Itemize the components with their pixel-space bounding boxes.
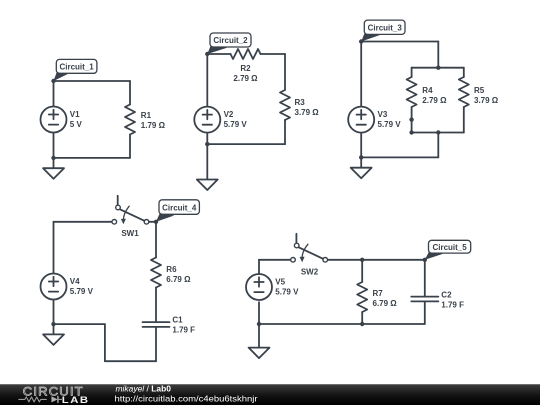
- svg-text:V4: V4: [70, 277, 80, 286]
- wire R4 top stub: [411, 68, 413, 77]
- svg-text:V1: V1: [70, 110, 80, 119]
- svg-text:http://circuitlab.com/c4ebu6ts: http://circuitlab.com/c4ebu6tskhnjr: [115, 394, 258, 404]
- wire switch-left C4: [54, 221, 112, 223]
- svg-text:C2: C2: [441, 290, 452, 299]
- wire bottom C2: [207, 143, 285, 145]
- node R4 bottom junction: [409, 130, 413, 134]
- resistor R5: [459, 77, 499, 107]
- svg-text:C1: C1: [172, 315, 183, 324]
- wire top-right C2: [261, 53, 286, 55]
- wire V5 top stub: [258, 260, 260, 274]
- node A1 top-left junction: [51, 79, 55, 83]
- wire left-bottom C3: [360, 133, 362, 168]
- wire right-bottom C1: [129, 135, 131, 158]
- wire R3 bottom stub: [284, 120, 286, 144]
- svg-text:Circuit_4: Circuit_4: [162, 203, 197, 212]
- wire C1 bottom stub: [155, 327, 157, 361]
- svg-text:V3: V3: [378, 110, 388, 119]
- wire bottom C5: [259, 323, 425, 325]
- svg-text:Circuit_2: Circuit_2: [213, 36, 248, 45]
- resistor R4: [407, 77, 447, 107]
- wire R5 bottom stub: [463, 107, 465, 133]
- wire left-bottom C1: [53, 133, 55, 169]
- svg-text:V5: V5: [275, 277, 285, 286]
- wire center drop C3: [437, 133, 439, 158]
- svg-text:Circuit_5: Circuit_5: [432, 243, 467, 252]
- svg-text:SW1: SW1: [121, 229, 139, 238]
- resistor R7: [357, 282, 397, 312]
- wire below V4: [53, 299, 55, 334]
- wire switch-to-R7 C5: [327, 259, 424, 261]
- wire left-top C2: [206, 54, 208, 107]
- node C2 top junction: [423, 258, 427, 262]
- wire left-bottom C5: [258, 302, 260, 347]
- svg-text:V2: V2: [224, 110, 234, 119]
- wire C2 top stub: [424, 260, 426, 297]
- svg-text:Circuit_3: Circuit_3: [368, 24, 403, 33]
- wire right drop C3: [437, 42, 439, 68]
- label Circuit_4: [156, 200, 199, 222]
- svg-text:3.79 Ω: 3.79 Ω: [295, 108, 320, 117]
- wire top-left C2: [207, 53, 230, 55]
- wire bottom C3: [361, 156, 438, 158]
- svg-text:2.79 Ω: 2.79 Ω: [422, 96, 447, 105]
- wire R6-C1: [155, 288, 157, 323]
- wire left-top C3: [360, 42, 362, 107]
- svg-text:6.79 Ω: 6.79 Ω: [373, 299, 398, 308]
- label Circuit_2: [207, 33, 251, 54]
- svg-text:5.79 V: 5.79 V: [378, 120, 402, 129]
- svg-text:R2: R2: [240, 64, 251, 73]
- svg-text:3.79 Ω: 3.79 Ω: [474, 96, 499, 105]
- node bottom bus junction: [436, 130, 440, 134]
- voltage source V3: [348, 107, 401, 133]
- svg-text:2.79 Ω: 2.79 Ω: [233, 74, 258, 83]
- svg-text:1.79 Ω: 1.79 Ω: [141, 121, 166, 130]
- wire R3 top stub: [284, 54, 286, 90]
- wire R4 bottom stub: [411, 107, 413, 133]
- resistor R6: [151, 258, 191, 288]
- node top bus junction: [436, 66, 440, 70]
- resistor R1: [125, 105, 166, 135]
- wire R7 top stub: [361, 260, 363, 282]
- node A2 top junction: [205, 52, 209, 56]
- node R7 bottom junction: [360, 322, 364, 326]
- wire switch-right C4: [149, 221, 156, 223]
- logo resistor zigzag: [19, 397, 47, 402]
- switch SW2: [291, 234, 328, 277]
- svg-text:1.79 F: 1.79 F: [172, 325, 195, 334]
- node A5 ground junction: [257, 322, 261, 326]
- svg-text:R6: R6: [166, 265, 177, 274]
- node A3 top-left junction: [359, 39, 363, 43]
- wire top bus C3: [412, 67, 464, 69]
- node A1 bottom junction: [51, 156, 55, 160]
- logo diode: [51, 396, 61, 402]
- node A4 right junction: [154, 220, 158, 224]
- svg-text:5.79 V: 5.79 V: [224, 120, 248, 129]
- wire V5-to-switch: [259, 259, 291, 261]
- svg-text:1.79 F: 1.79 F: [441, 300, 464, 309]
- wire R5 top stub: [463, 68, 465, 77]
- voltage source V5: [246, 274, 299, 300]
- wire right-top C1: [129, 81, 131, 105]
- svg-text:Circuit_1: Circuit_1: [59, 63, 94, 72]
- svg-text:mikayel / Lab0: mikayel / Lab0: [116, 385, 172, 394]
- svg-text:5 V: 5 V: [70, 120, 83, 129]
- capacitor C1: [143, 315, 196, 334]
- svg-text:R7: R7: [373, 289, 384, 298]
- node R4 mid junction: [409, 117, 413, 121]
- wire R6 top stub: [155, 222, 157, 258]
- wire top C1: [54, 80, 131, 82]
- wire C2 bottom stub: [424, 301, 426, 324]
- svg-text:R3: R3: [295, 98, 306, 107]
- ground C2: [197, 180, 218, 191]
- wire top C3: [361, 41, 438, 43]
- svg-text:R4: R4: [422, 86, 433, 95]
- ground C4: [43, 334, 64, 345]
- wire return rise C4: [104, 324, 106, 361]
- wire return left C4: [54, 323, 105, 325]
- resistor R3: [280, 90, 319, 120]
- wire left drop C4: [53, 222, 55, 274]
- label Circuit_3: [361, 20, 405, 41]
- node A4 ground junction: [51, 322, 55, 326]
- svg-text:R1: R1: [141, 111, 152, 120]
- ground C1: [43, 168, 64, 179]
- ground C5: [249, 348, 270, 359]
- svg-text:LAB: LAB: [62, 395, 90, 405]
- svg-text:6.79 Ω: 6.79 Ω: [166, 275, 191, 284]
- resistor R2: [231, 49, 261, 83]
- voltage source V4: [41, 274, 94, 300]
- voltage source V2: [194, 107, 247, 133]
- ground C3: [351, 168, 372, 179]
- wire bottom bus C3: [412, 132, 464, 134]
- wire R7 bottom stub: [361, 312, 363, 324]
- svg-text:5.79 V: 5.79 V: [70, 287, 94, 296]
- wire return bottom C4: [105, 360, 156, 362]
- svg-text:SW2: SW2: [301, 268, 319, 277]
- wire left-top C1: [53, 81, 55, 107]
- svg-text:R5: R5: [474, 86, 485, 95]
- wire left-bottom C2: [206, 133, 208, 180]
- node R7 top junction: [360, 258, 364, 262]
- wire bottom C1: [54, 157, 131, 159]
- node A3 bottom junction: [359, 155, 363, 159]
- svg-text:5.79 V: 5.79 V: [275, 287, 299, 296]
- capacitor C2: [411, 290, 464, 309]
- switch SW1: [112, 196, 149, 238]
- node A2 bottom junction: [205, 142, 209, 146]
- label Circuit_5: [425, 240, 471, 259]
- label Circuit_1: [54, 59, 97, 81]
- voltage source V1: [41, 107, 83, 133]
